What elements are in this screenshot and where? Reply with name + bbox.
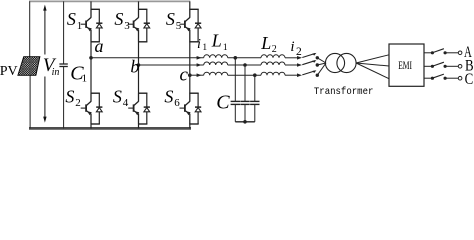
svg-text:S: S (166, 9, 175, 29)
wire: phase a to transformer (317, 58, 326, 63)
transformer winding 2 (337, 53, 356, 72)
wire: phase b to transformer (317, 63, 326, 65)
svg-text:L: L (211, 31, 222, 51)
output phase C: wire to terminal (445, 77, 458, 79)
wire: leg 3 verticals (189, 1, 191, 128)
wire: DC bus top rail (29, 0, 190, 2)
inductor L1 phase b (204, 62, 228, 65)
wire: transformer to EMI input 3 (356, 63, 389, 79)
capacitor C phase b (240, 101, 249, 121)
wire: phase b line L2 to breaker (285, 64, 299, 66)
filter cap tap junction phase b (243, 63, 247, 101)
capacitor C1 (59, 1, 67, 128)
capacitor C phase a (231, 101, 240, 121)
output phase B: wire to terminal (445, 65, 458, 67)
wire: phase b line to L1 (139, 64, 204, 66)
wire: phase c to transformer (317, 63, 326, 75)
output phase A: breaker blade (433, 49, 444, 53)
inductor L2 phase a (261, 55, 285, 58)
svg-text:1: 1 (223, 43, 228, 53)
switch S1 (IGBT with antiparallel diode) (81, 9, 103, 42)
inductor L1 phase a (204, 55, 228, 58)
breaker switch phase a (302, 53, 319, 60)
filter cap tap junction phase a (234, 56, 238, 101)
svg-text:6: 6 (174, 97, 180, 109)
wire: phase a line L1 to L2 (228, 57, 261, 59)
output phase B: open terminal (458, 65, 462, 69)
svg-text:3: 3 (124, 20, 130, 32)
output phase C: left contact dot (431, 77, 434, 80)
current arrow i1 on phase c (197, 73, 202, 77)
wire: DC bus bottom rail (29, 127, 191, 130)
svg-text:C: C (216, 91, 230, 113)
output phase A: open terminal (458, 51, 462, 55)
current arrow i2 on phase a (297, 56, 302, 60)
Vin measurement arrow (double-headed) (43, 5, 46, 123)
inductor L2 phase b (261, 62, 285, 65)
wire: phase c line L1 to L2 (228, 74, 261, 76)
breaker switch phase b (302, 60, 319, 67)
svg-text:1: 1 (82, 73, 88, 85)
current arrow i2 on phase b (297, 63, 302, 67)
svg-text:c: c (180, 64, 189, 85)
output phase C: breaker blade (433, 74, 444, 78)
svg-text:L: L (260, 33, 271, 53)
capacitor C phase c (250, 101, 259, 121)
svg-text:1: 1 (202, 43, 207, 53)
svg-text:Transformer: Transformer (314, 86, 374, 98)
wire: phase b line L1 to L2 (228, 64, 261, 66)
svg-text:i: i (290, 39, 294, 55)
wire: capacitor bank bottom bus (235, 120, 255, 124)
svg-text:2: 2 (272, 44, 277, 55)
wire: phase c line to L1 (190, 74, 204, 76)
output phase C: right contact dot (444, 77, 447, 80)
svg-text:PV: PV (0, 64, 18, 79)
wire: transformer to EMI input 1 (356, 55, 389, 63)
output phase C: open terminal (458, 76, 462, 80)
svg-text:a: a (95, 36, 104, 56)
switch S4 (IGBT with antiparallel diode) (128, 93, 150, 124)
svg-text:EMI: EMI (398, 58, 412, 72)
svg-text:2: 2 (296, 46, 302, 58)
svg-text:1: 1 (77, 20, 83, 32)
svg-text:5: 5 (176, 20, 182, 32)
wire: phase c line L2 to breaker (285, 74, 299, 76)
output phase B: wire from EMI (424, 65, 432, 67)
wire: phase a line to L1 (91, 57, 204, 59)
wire: leg 1 verticals (90, 1, 92, 128)
switch S3 (IGBT with antiparallel diode) (128, 9, 150, 42)
svg-text:b: b (130, 57, 139, 77)
PV panel symbol (18, 57, 40, 76)
wire: leg 2 verticals (138, 1, 140, 128)
transformer winding 1 (325, 53, 344, 72)
node b junction dot (137, 63, 141, 67)
svg-text:in: in (52, 67, 60, 78)
output phase A: wire to terminal (445, 52, 458, 54)
svg-text:2: 2 (75, 97, 81, 109)
wire: PV branch vertical (29, 1, 31, 56)
inductor L2 phase c (261, 72, 285, 75)
inductor L1 phase c (204, 72, 228, 75)
svg-text:i: i (197, 37, 201, 52)
output phase B: left contact dot (431, 65, 434, 68)
node c junction dot (188, 73, 192, 77)
node a junction dot (89, 56, 93, 60)
EMI filter box (389, 44, 424, 86)
output phase C: wire from EMI (424, 77, 432, 79)
svg-text:S: S (113, 86, 122, 106)
svg-text:S: S (65, 86, 74, 106)
switch S6 (IGBT with antiparallel diode) (180, 93, 202, 124)
current arrow i1 on phase b (197, 63, 202, 67)
svg-text:S: S (164, 86, 173, 106)
wire: phase a line L2 to breaker (285, 57, 299, 59)
output phase A: right contact dot (444, 51, 447, 54)
wire: transformer to EMI input 2 (356, 63, 389, 66)
output phase B: breaker blade (433, 62, 444, 66)
switch S2 (IGBT with antiparallel diode) (81, 93, 103, 124)
switch S5 (IGBT with antiparallel diode) (180, 9, 202, 42)
current arrow i1 on phase a (197, 56, 202, 60)
output phase B: right contact dot (444, 65, 447, 68)
output phase A: wire from EMI (424, 52, 432, 54)
svg-text:4: 4 (123, 97, 129, 109)
svg-text:S: S (114, 9, 123, 29)
filter cap tap junction phase c (253, 73, 257, 101)
output phase A: left contact dot (431, 51, 434, 54)
breaker switch phase c (302, 70, 319, 77)
svg-text:C: C (465, 71, 474, 88)
current arrow i2 on phase c (297, 73, 302, 77)
svg-text:S: S (67, 9, 76, 29)
